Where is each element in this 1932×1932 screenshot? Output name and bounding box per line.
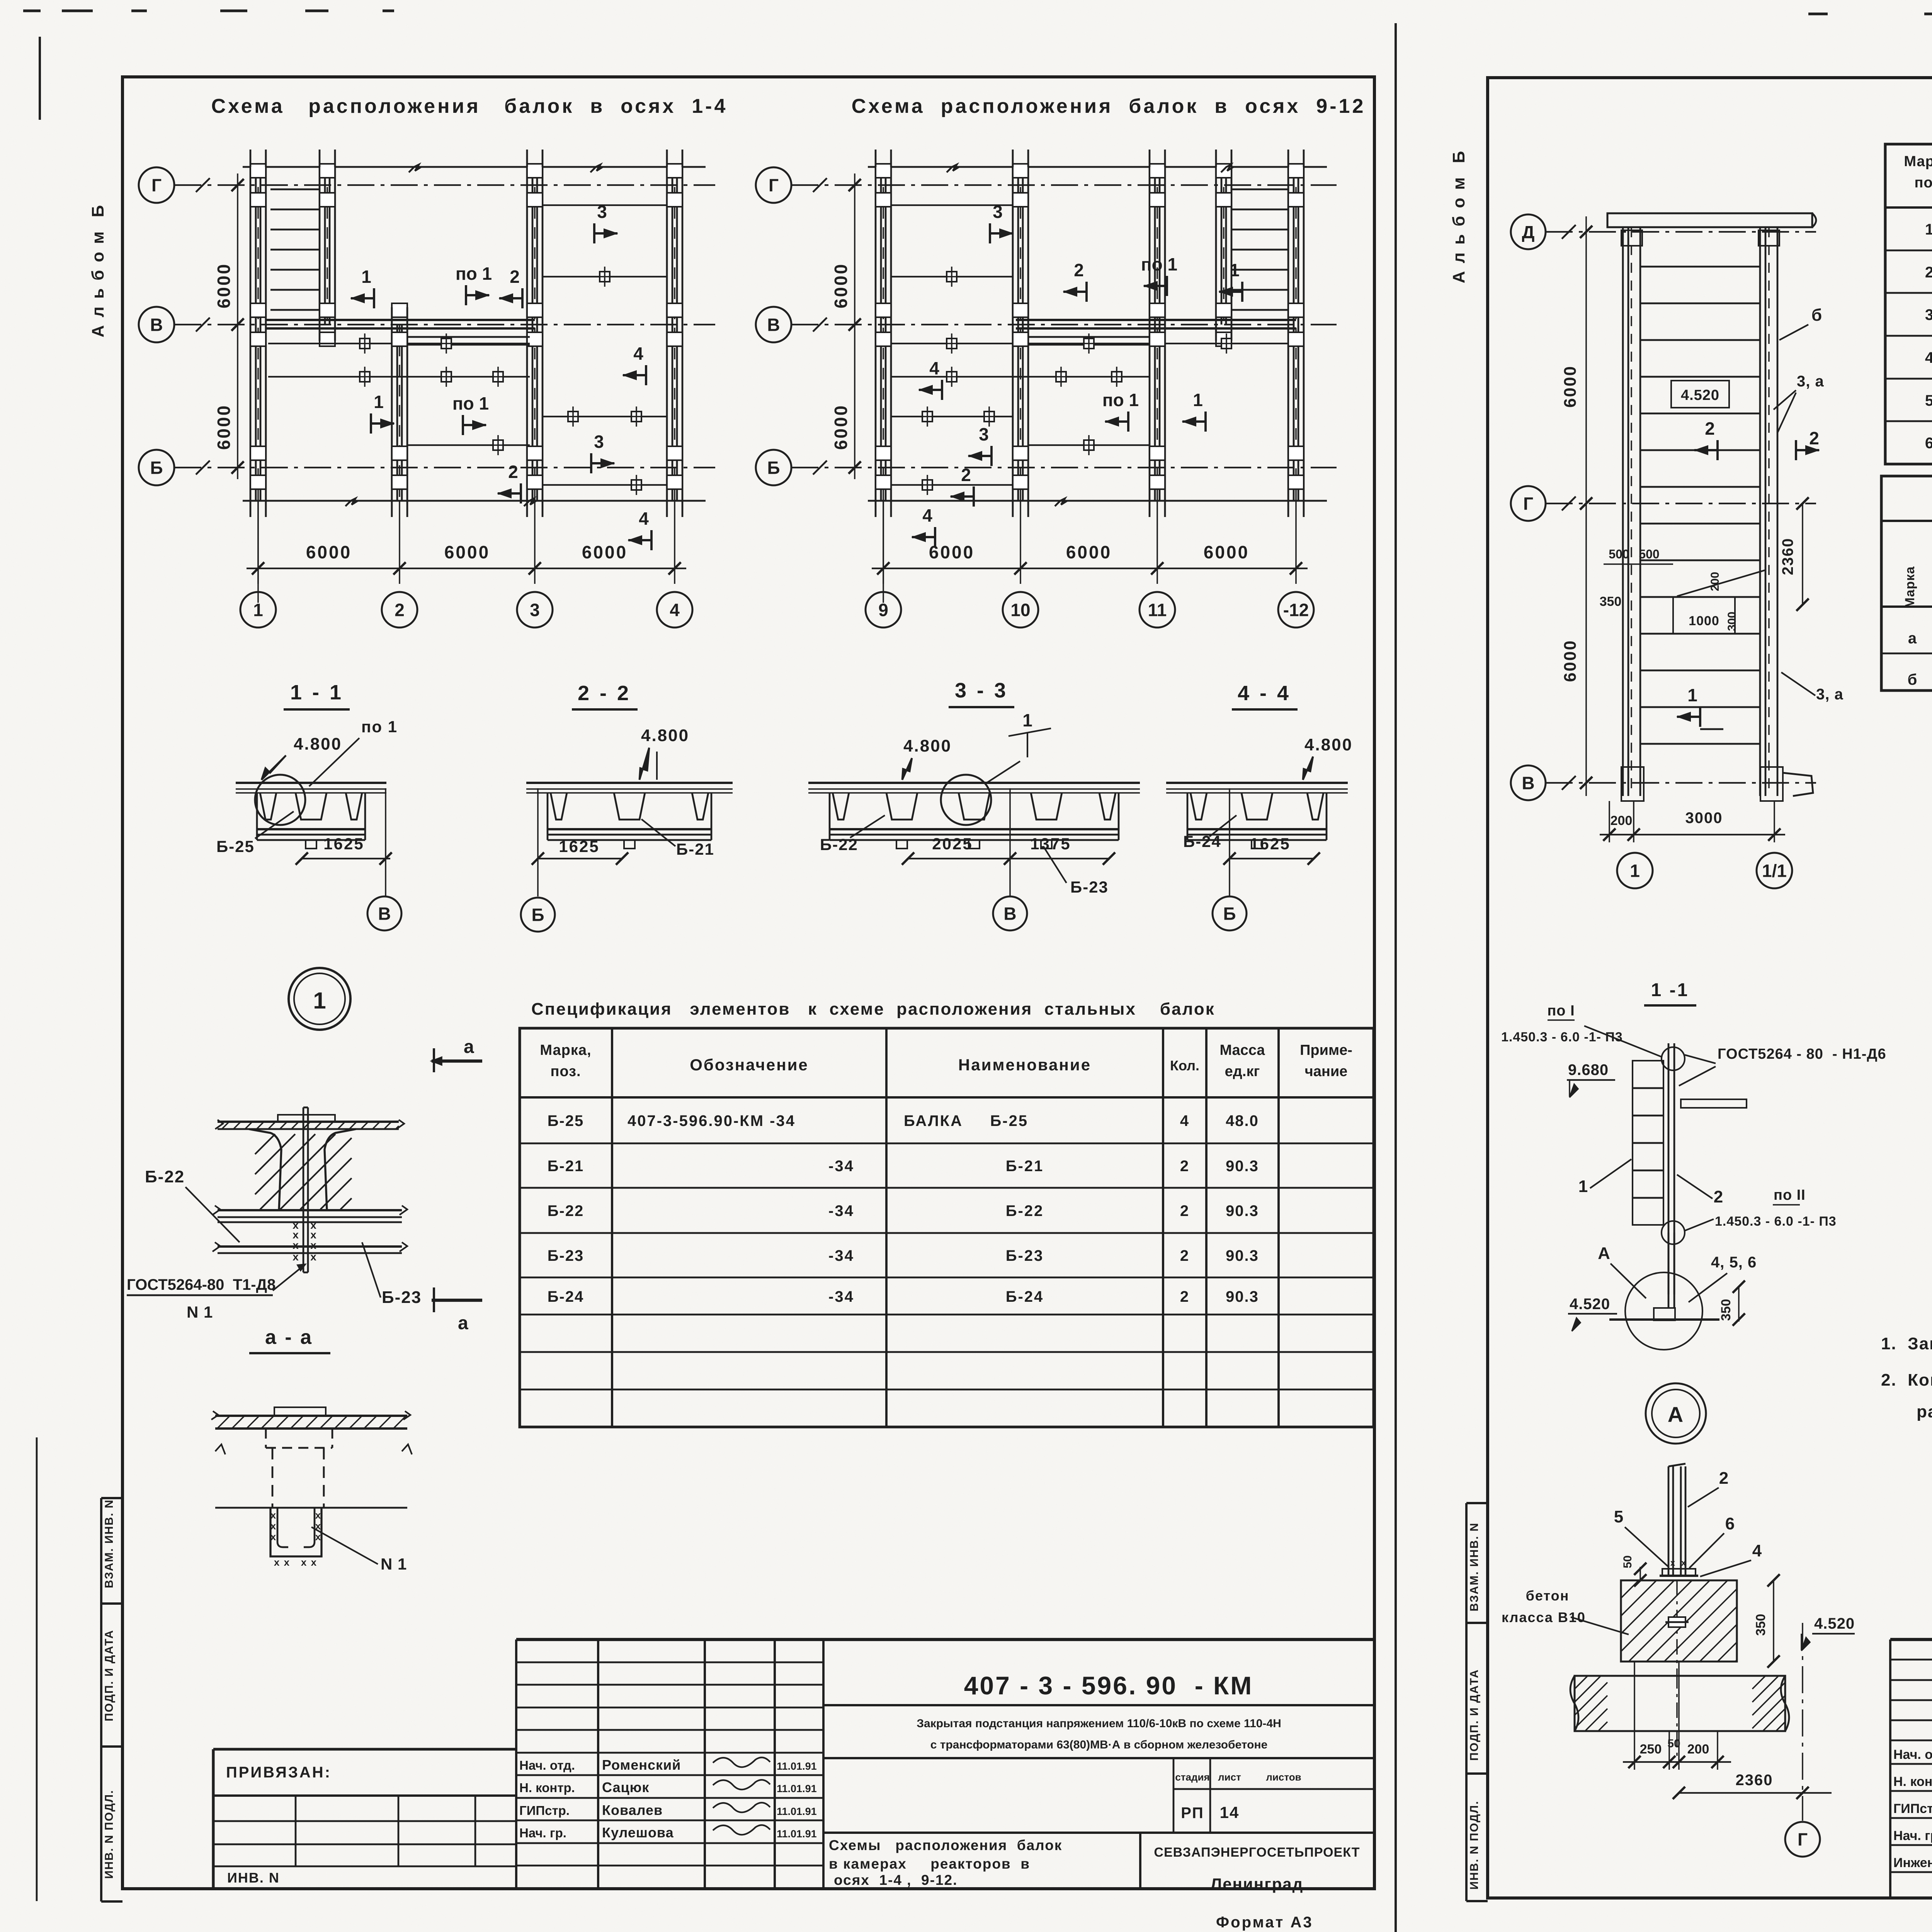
svg-text:по 1: по 1 [456,264,492,284]
svg-text:1: 1 [1630,861,1640,881]
svg-text:4.800: 4.800 [903,736,952,755]
svg-text:1: 1 [313,988,326,1014]
svg-text:-34: -34 [828,1247,854,1264]
svg-text:48.0: 48.0 [1226,1112,1259,1129]
svg-text:x: x [315,1509,321,1521]
svg-text:1625: 1625 [559,837,599,855]
svg-text:2: 2 [961,465,971,485]
svg-text:4.520: 4.520 [1681,387,1719,403]
svg-text:90.3: 90.3 [1226,1247,1259,1264]
svg-text:6000: 6000 [1204,542,1249,562]
svg-text:350: 350 [1719,1299,1733,1321]
svg-text:Б-23: Б-23 [1070,878,1109,896]
svg-text:Ленинград: Ленинград [1211,1875,1304,1893]
svg-text:ПОДП. И ДАТА: ПОДП. И ДАТА [1468,1669,1481,1761]
svg-text:1: 1 [253,600,263,620]
svg-text:407-3-596.90-КМ -34: 407-3-596.90-КМ -34 [628,1112,796,1129]
svg-text:Нач. гр.: Нач. гр. [1893,1828,1932,1843]
svg-text:9.680: 9.680 [1568,1061,1609,1078]
svg-text:1625: 1625 [1250,835,1290,853]
svg-text:2: 2 [1925,264,1932,281]
svg-text:А л ь б о м Б: А л ь б о м Б [88,204,107,338]
svg-text:1: 1 [361,267,371,287]
svg-text:Марка,: Марка, [540,1042,591,1058]
svg-text:поз.: поз. [550,1063,581,1080]
svg-text:2: 2 [1180,1247,1189,1264]
svg-text:a: a [464,1037,474,1057]
svg-text:лист: лист [1218,1771,1241,1783]
svg-text:Б-23: Б-23 [1006,1247,1044,1264]
svg-text:-34: -34 [828,1158,854,1175]
svg-text:x: x [293,1251,299,1263]
svg-text:Б: Б [1223,904,1236,924]
svg-text:4, 5, 6: 4, 5, 6 [1711,1254,1757,1271]
svg-text:250: 250 [1640,1742,1662,1757]
svg-text:4.520: 4.520 [1570,1296,1610,1313]
svg-text:Б-24: Б-24 [548,1288,584,1305]
svg-text:6000: 6000 [831,404,851,450]
svg-text:Г: Г [1798,1830,1808,1850]
svg-text:300: 300 [1726,612,1738,631]
svg-text:Наименование: Наименование [958,1056,1091,1074]
svg-text:2: 2 [1180,1288,1189,1305]
svg-text:расположению в осях: расположению в осях 1 - 1/1 [1917,1402,1932,1421]
svg-text:4: 4 [633,344,643,364]
svg-text:-34: -34 [828,1288,854,1305]
svg-text:1: 1 [1687,685,1697,705]
svg-text:1.450.3 - 6.0 -1- П3: 1.450.3 - 6.0 -1- П3 [1715,1214,1837,1229]
svg-text:11.01.91: 11.01.91 [777,1828,817,1840]
svg-text:1: 1 [1925,221,1932,238]
svg-text:ИНВ. N ПОДЛ.: ИНВ. N ПОДЛ. [1468,1801,1481,1890]
svg-text:ПРИВЯЗАН:: ПРИВЯЗАН: [226,1764,332,1781]
svg-text:1.450.3 - 6.0 -1- П3: 1.450.3 - 6.0 -1- П3 [1501,1030,1623,1044]
svg-text:4: 4 [670,600,680,620]
svg-text:листов: листов [1266,1771,1301,1783]
svg-text:50: 50 [1621,1555,1634,1568]
svg-text:3 - 3: 3 - 3 [955,679,1008,702]
svg-text:б: б [1908,671,1918,688]
svg-text:x x: x x [301,1556,317,1568]
svg-text:ВЗАМ. ИНВ. N: ВЗАМ. ИНВ. N [103,1499,116,1588]
svg-text:4.800: 4.800 [294,735,342,753]
svg-text:14: 14 [1220,1803,1240,1821]
svg-text:10: 10 [1010,600,1030,620]
svg-text:ГОСТ5264 - 80 - Н1-Д6: ГОСТ5264 - 80 - Н1-Д6 [1718,1046,1886,1062]
svg-text:осях 1-4 , 9-12.: осях 1-4 , 9-12. [834,1872,957,1888]
svg-text:1625: 1625 [323,835,364,853]
svg-text:б: б [1811,306,1822,325]
svg-text:4 - 4: 4 - 4 [1238,682,1291,705]
svg-text:Сацюк: Сацюк [602,1779,649,1795]
svg-text:3: 3 [594,432,604,452]
svg-text:500: 500 [1609,547,1629,561]
svg-text:3, а: 3, а [1797,373,1824,390]
svg-text:Приме-: Приме- [1300,1042,1352,1058]
svg-text:90.3: 90.3 [1226,1202,1259,1219]
svg-text:Б-21: Б-21 [676,840,714,858]
svg-text:Б: Б [767,458,780,478]
svg-text:Ковалев: Ковалев [602,1802,663,1818]
svg-text:2. Конструкции ограждения: 2. Конструкции ограждения и лестницы в о… [1881,1371,1932,1389]
svg-text:Д: Д [1522,222,1535,242]
svg-text:6000: 6000 [214,404,234,450]
svg-text:чание: чание [1305,1063,1348,1080]
svg-text:6000: 6000 [444,542,490,562]
svg-text:по 1: по 1 [1141,254,1177,274]
svg-text:Нач. гр.: Нач. гр. [519,1826,566,1840]
svg-text:3, а: 3, а [1816,686,1844,703]
svg-text:по 1: по 1 [452,393,489,413]
svg-text:2: 2 [1719,1469,1729,1488]
svg-text:6: 6 [1725,1514,1735,1533]
svg-text:5: 5 [1614,1507,1624,1526]
svg-text:11.01.91: 11.01.91 [777,1783,817,1794]
svg-text:2: 2 [1180,1158,1189,1175]
svg-text:x: x [270,1520,277,1532]
svg-text:ИНВ. N ПОДЛ.: ИНВ. N ПОДЛ. [103,1790,116,1879]
svg-text:2: 2 [1705,418,1715,439]
svg-text:200: 200 [1709,572,1721,591]
svg-text:x: x [310,1251,317,1263]
svg-text:-34: -34 [828,1202,854,1219]
svg-text:x: x [270,1531,277,1543]
svg-text:x: x [293,1239,299,1251]
svg-text:6000: 6000 [831,263,851,308]
svg-text:200: 200 [1611,813,1633,828]
svg-text:3: 3 [979,424,989,444]
svg-text:Инженер: Инженер [1893,1855,1932,1870]
svg-text:по II: по II [1774,1187,1806,1203]
svg-text:А л ь б о м Б: А л ь б о м Б [1449,150,1468,284]
svg-text:Г: Г [151,175,162,196]
svg-text:11.01.91: 11.01.91 [777,1760,817,1772]
svg-text:В: В [767,315,780,335]
svg-text:11.01.91: 11.01.91 [777,1806,817,1817]
svg-text:4.800: 4.800 [641,726,689,745]
svg-text:Нач. отд.: Нач. отд. [1893,1747,1932,1762]
svg-text:В: В [150,315,163,335]
svg-text:4.800: 4.800 [1304,735,1353,754]
svg-text:Б-22: Б-22 [548,1202,584,1219]
svg-text:ГИПстр.: ГИПстр. [1893,1801,1932,1816]
svg-text:1 - 1: 1 - 1 [290,681,344,704]
svg-text:СЕВЗАПЭНЕРГОСЕТЬПРОЕКТ: СЕВЗАПЭНЕРГОСЕТЬПРОЕКТ [1154,1845,1360,1860]
svg-text:6000: 6000 [214,263,234,308]
svg-text:ПОДП. И ДАТА: ПОДП. И ДАТА [103,1629,116,1721]
svg-text:РП: РП [1181,1804,1204,1821]
svg-text:2 - 2: 2 - 2 [578,682,631,705]
svg-text:90.3: 90.3 [1226,1288,1259,1305]
svg-text:Г: Г [769,175,779,196]
svg-text:ГОСТ5264-80 Т1-Д8: ГОСТ5264-80 Т1-Д8 [127,1276,276,1293]
svg-text:4: 4 [1752,1541,1762,1560]
svg-text:4: 4 [639,509,649,529]
svg-text:6000: 6000 [1066,542,1112,562]
svg-text:Б-23: Б-23 [548,1247,584,1264]
svg-text:4.520: 4.520 [1814,1615,1855,1632]
svg-text:Б-25: Б-25 [548,1112,584,1129]
svg-text:x: x [1681,1558,1687,1568]
svg-text:3: 3 [1925,306,1932,323]
svg-text:6000: 6000 [306,542,352,562]
svg-text:Б-23: Б-23 [382,1288,422,1307]
svg-text:3000: 3000 [1685,810,1723,827]
svg-text:1 -1: 1 -1 [1651,980,1689,1000]
svg-text:Б-25: Б-25 [216,837,255,855]
svg-text:1: 1 [1193,390,1203,410]
svg-text:1000: 1000 [1689,614,1719,628]
svg-text:90.3: 90.3 [1226,1158,1259,1175]
svg-text:350: 350 [1600,594,1622,609]
svg-text:Кулешова: Кулешова [602,1825,674,1840]
svg-text:1: 1 [1230,260,1240,280]
svg-text:Кол.: Кол. [1170,1058,1199,1073]
svg-text:6000: 6000 [1561,639,1580,682]
svg-text:x x: x x [274,1556,290,1568]
svg-text:Б-21: Б-21 [1006,1158,1044,1175]
svg-text:Б-24: Б-24 [1183,832,1221,850]
svg-text:Закрытая подстанция напряжение: Закрытая подстанция напряжением 110/6-10… [917,1717,1281,1730]
svg-text:3: 3 [993,202,1003,222]
svg-text:а - а: а - а [265,1326,313,1349]
svg-text:2: 2 [1809,428,1819,448]
svg-text:x: x [270,1509,277,1521]
svg-text:6000: 6000 [582,542,628,562]
svg-text:50: 50 [1667,1737,1680,1750]
svg-text:ГИПстр.: ГИПстр. [519,1803,570,1818]
svg-text:4: 4 [929,358,939,378]
svg-text:ИНВ. N: ИНВ. N [227,1870,280,1886]
svg-text:1: 1 [1022,710,1032,730]
svg-text:1. Закладную деталь Д-1: 1. Закладную деталь Д-1 заложить при мон… [1881,1334,1932,1353]
svg-text:2360: 2360 [1736,1772,1773,1789]
svg-text:стадия: стадия [1175,1771,1209,1783]
svg-text:407 - 3 - 596. 90 - КМ: 407 - 3 - 596. 90 - КМ [964,1671,1253,1700]
svg-text:бетон: бетон [1526,1588,1570,1604]
svg-text:в камерах реакторов в: в камерах реакторов в [829,1856,1030,1872]
svg-text:4: 4 [1180,1112,1189,1129]
svg-text:Нач. отд.: Нач. отд. [519,1758,575,1772]
svg-text:5: 5 [1925,392,1932,409]
svg-text:x: x [1670,1558,1676,1568]
svg-text:Б-22: Б-22 [1006,1202,1044,1219]
svg-text:4: 4 [922,505,932,526]
svg-text:1: 1 [1578,1177,1588,1196]
svg-text:2: 2 [1074,260,1084,280]
svg-text:N 1: N 1 [187,1303,213,1321]
svg-text:11: 11 [1148,600,1167,620]
svg-text:6: 6 [1925,435,1932,452]
svg-text:Масса: Масса [1219,1042,1265,1058]
svg-text:350: 350 [1753,1614,1768,1636]
svg-text:4: 4 [1925,349,1932,366]
svg-text:Схема расположения балок в: Схема расположения балок в осях 9-12 [852,95,1366,117]
svg-text:Б: Б [531,905,544,925]
svg-text:А: А [1598,1244,1611,1263]
svg-text:Н. контр.: Н. контр. [1893,1774,1932,1789]
svg-text:2: 2 [1180,1202,1189,1219]
svg-text:Схемы расположения балок: Схемы расположения балок [829,1837,1062,1853]
svg-text:В: В [378,904,391,924]
svg-text:Б-24: Б-24 [1006,1288,1044,1305]
svg-text:Марка,: Марка, [1904,153,1932,170]
svg-text:1: 1 [374,392,384,412]
svg-text:Б-21: Б-21 [548,1158,584,1175]
svg-text:500: 500 [1639,547,1659,561]
svg-text:по 1: по 1 [361,718,398,736]
svg-text:3: 3 [530,600,540,620]
svg-text:1/1: 1/1 [1762,861,1787,881]
svg-text:ВЗАМ. ИНВ. N: ВЗАМ. ИНВ. N [1468,1522,1481,1612]
svg-text:БАЛКА Б-25: БАЛКА Б-25 [904,1112,1028,1129]
svg-text:2025: 2025 [932,835,973,853]
svg-text:200: 200 [1687,1742,1709,1757]
svg-text:Спецификация элементов к: Спецификация элементов к схеме расположе… [531,1000,1215,1019]
svg-text:В: В [1522,773,1534,793]
svg-text:Б: Б [150,458,163,478]
svg-text:В: В [1003,904,1016,924]
svg-text:Схема расположения балок: Схема расположения балок в осях 1-4 [211,95,728,117]
svg-text:ед.кг: ед.кг [1225,1063,1260,1080]
svg-text:2: 2 [508,462,518,482]
svg-text:N 1: N 1 [381,1555,407,1573]
svg-text:2360: 2360 [1779,538,1796,575]
svg-text:-12: -12 [1283,600,1309,620]
svg-text:2: 2 [395,600,405,620]
svg-text:Роменский: Роменский [602,1757,681,1773]
svg-text:по I: по I [1547,1003,1575,1019]
svg-text:Н. контр.: Н. контр. [519,1781,575,1795]
svg-text:Б-22: Б-22 [820,835,858,854]
svg-text:2: 2 [510,267,520,287]
svg-text:3: 3 [597,202,607,222]
svg-text:6000: 6000 [1561,365,1580,408]
svg-text:x: x [310,1239,317,1251]
svg-text:Б-22: Б-22 [145,1167,185,1186]
svg-text:a: a [458,1313,468,1333]
svg-text:2: 2 [1714,1187,1724,1206]
svg-text:Обозначение: Обозначение [690,1056,809,1074]
svg-text:1375: 1375 [1030,835,1071,853]
svg-text:а: а [1908,630,1917,647]
svg-text:9: 9 [878,600,888,620]
svg-text:с трансформаторами 63(80)МВ·А: с трансформаторами 63(80)МВ·А в сборном … [930,1738,1268,1751]
svg-text:Формат А3: Формат А3 [1216,1914,1313,1931]
svg-text:Марка: Марка [1903,566,1917,608]
svg-text:А: А [1668,1402,1684,1427]
svg-text:по 1: по 1 [1102,390,1139,410]
svg-text:поз.: поз. [1914,175,1932,191]
svg-text:Г: Г [1523,494,1533,514]
